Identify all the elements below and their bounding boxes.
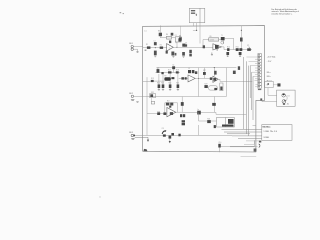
- ground stub mid: [211, 53, 213, 56]
- table row 2: [263, 137, 269, 139]
- arrow ground A: [147, 140, 149, 142]
- svg-text:R9: R9: [210, 36, 212, 38]
- wire right verticals: [218, 57, 252, 136]
- resistor R23: [177, 84, 180, 89]
- ground below C1: [154, 55, 156, 58]
- svg-text:einzelne Vorverstärker u.: einzelne Vorverstärker u.: [271, 12, 292, 15]
- wire relay to bus: [214, 112, 246, 114]
- svg-text:1,0: 1,0: [144, 30, 146, 32]
- resistor R26: [192, 70, 195, 73]
- junction node stage2 in: [202, 47, 203, 48]
- wires to meter: [262, 88, 277, 102]
- svg-text:NF b: NF b: [267, 76, 271, 78]
- meter terminal 2: [282, 100, 286, 105]
- transistor Q1: [221, 37, 234, 50]
- resistor R27: [203, 72, 206, 75]
- table header: [262, 126, 271, 129]
- speck below input: [145, 50, 147, 51]
- ground below C3: [182, 55, 184, 58]
- resistor R31: [212, 103, 216, 106]
- svg-text:LS: LS: [288, 96, 290, 98]
- wire strip stubs: [246, 57, 258, 120]
- measurement specks: [120, 12, 124, 14]
- capacitor C5: [188, 70, 191, 73]
- resistor R39 bus end: [238, 66, 240, 70]
- ground J2: [136, 101, 138, 104]
- svg-text:R11: R11: [236, 46, 239, 48]
- ground R23: [177, 88, 179, 91]
- input jack J2: [131, 95, 143, 100]
- svg-text:La: La: [197, 109, 199, 111]
- bus lines to terminal table: [222, 126, 262, 139]
- svg-text:C2: C2: [175, 35, 177, 37]
- resistor R2: [160, 47, 163, 49]
- ground corner: [143, 149, 147, 152]
- battery box: [189, 8, 205, 22]
- resistor R43: [214, 71, 216, 75]
- resistor R12: [239, 48, 242, 51]
- resistor R11: [236, 48, 239, 51]
- capacitor C15: [170, 103, 173, 106]
- capacitor C16: [169, 41, 171, 44]
- switch S1: [151, 101, 154, 104]
- input jack J3: [131, 134, 135, 139]
- wire J2 input: [143, 96, 182, 98]
- op-amp U4: [213, 76, 218, 82]
- svg-text:3 SW.: 3 SW.: [263, 137, 269, 139]
- svg-text:R33: R33: [157, 111, 160, 113]
- resistor R7 below U1: [166, 51, 168, 54]
- component labels sprinkle: [151, 35, 249, 144]
- svg-text:R23: R23: [176, 83, 179, 85]
- relay K2: [217, 118, 235, 128]
- resistor R29: [204, 85, 207, 88]
- ground J1: [136, 51, 138, 54]
- connector box LS: [265, 81, 273, 87]
- svg-text:R4: R4: [166, 34, 168, 36]
- svg-text:R27: R27: [203, 70, 206, 72]
- capacitor C2: [171, 33, 174, 36]
- table row 1: [263, 131, 277, 133]
- schematic frame border: [143, 26, 265, 152]
- svg-text:C5: C5: [188, 68, 190, 70]
- junction node stage1 out: [176, 47, 177, 48]
- svg-text:1: 1: [169, 48, 170, 50]
- resistor R19: [143, 80, 154, 82]
- resistor R16: [161, 72, 163, 74]
- component box right: [220, 83, 223, 91]
- resistor R33: [157, 112, 160, 115]
- resistor R35 chain: [182, 120, 185, 125]
- header connector X1 strip: [258, 54, 261, 89]
- potentiometer P2: [164, 77, 174, 81]
- wire right row: [222, 25, 253, 49]
- ground C9: [169, 141, 171, 143]
- meter box M1: [277, 90, 296, 106]
- svg-text:R18: R18: [176, 70, 179, 72]
- op-amp U2: [213, 44, 222, 51]
- pin labels X1: [267, 56, 276, 87]
- svg-text:R15: R15: [156, 67, 159, 69]
- wire stage2: [177, 40, 223, 48]
- speck: [99, 196, 100, 197]
- meter terminal 1: [282, 94, 287, 102]
- ground R14: [239, 55, 241, 58]
- ground R22: [169, 88, 171, 91]
- capacitor C3: [182, 44, 187, 55]
- resistor R18: [176, 71, 179, 73]
- svg-text:R8: R8: [179, 35, 181, 37]
- junction battery node: [196, 30, 197, 31]
- terminal blob border end: [254, 149, 257, 152]
- resistor R46 top: [240, 38, 243, 42]
- svg-text:BU3: BU3: [129, 132, 133, 134]
- resistor R4 feedback box: [166, 36, 176, 43]
- resistor R13: [226, 52, 229, 56]
- resistor R37: [178, 134, 180, 137]
- resistor R14: [239, 52, 242, 56]
- svg-text:R20: R20: [157, 83, 160, 85]
- resistor R32: [150, 94, 156, 102]
- potentiometer P3: [162, 130, 167, 136]
- resistor R8: [179, 26, 182, 41]
- capacitor C17 junction: [203, 45, 205, 48]
- bus mid horizontal: [154, 68, 237, 85]
- box feedback stage1: [175, 37, 181, 42]
- terminal table X2: [262, 125, 292, 141]
- wire shadow line: [241, 156, 257, 158]
- wire stage1 input: [143, 41, 177, 48]
- arrow below table: [230, 144, 260, 148]
- junction bus loop: [214, 67, 215, 68]
- capacitor C1: [154, 42, 157, 55]
- resistor R1: [147, 46, 151, 49]
- strip pin marks: [258, 54, 259, 87]
- svg-text:P3: P3: [162, 128, 164, 130]
- svg-text:C4: C4: [172, 65, 174, 67]
- resistor R17: [168, 71, 172, 73]
- op-amp U5: [167, 108, 176, 117]
- ground R21: [162, 88, 164, 91]
- capacitor C11: [273, 83, 280, 86]
- resistor R20: [158, 84, 161, 89]
- blob below table: [259, 141, 261, 143]
- capacitor C7: [180, 114, 182, 117]
- resistor R44: [195, 71, 197, 74]
- resistor R6: [182, 44, 185, 47]
- wire U3 out: [195, 68, 214, 79]
- svg-text:C3: C3: [185, 43, 187, 45]
- svg-text:NF a: NF a: [267, 72, 271, 74]
- potentiometer P1: [247, 47, 251, 51]
- resistor R28: [210, 77, 212, 80]
- resistor R10: [227, 48, 229, 51]
- svg-text:+15 V Stab.: +15 V Stab.: [267, 56, 276, 59]
- lamp La1: [197, 111, 201, 115]
- svg-text:R2: R2: [160, 45, 162, 47]
- diode D1: [214, 125, 216, 128]
- wire to blob: [246, 140, 259, 142]
- output network wires: [199, 112, 217, 135]
- capacitor C14: [166, 103, 170, 106]
- resistor R30: [181, 102, 184, 106]
- svg-text:R19: R19: [151, 78, 154, 80]
- svg-text:P1: P1: [247, 45, 249, 47]
- capacitor C12 below U1: [171, 52, 176, 58]
- svg-text:BU2: BU2: [129, 93, 133, 95]
- svg-text:C1: C1: [154, 40, 156, 42]
- capacitor C13 bus end: [233, 71, 236, 74]
- title text block top right: [271, 8, 299, 15]
- op-amp U1: [167, 44, 174, 51]
- resistor R38 below U2: [189, 50, 192, 57]
- svg-text:R10: R10: [227, 46, 230, 48]
- op-amp U3: [188, 75, 195, 82]
- resistor R3: [159, 25, 167, 37]
- capacitor C4: [172, 66, 175, 69]
- svg-text:R22: R22: [168, 83, 171, 85]
- junction top rail: [241, 30, 242, 31]
- junction U3 out: [198, 78, 199, 79]
- resistor R24: [181, 77, 184, 79]
- feedback loop U5: [165, 103, 178, 114]
- resistor R15: [157, 69, 160, 73]
- resistor R36: [207, 120, 211, 123]
- capacitor C9: [169, 136, 172, 141]
- svg-text:R1: R1: [146, 44, 148, 46]
- svg-text:R3: R3: [158, 31, 160, 33]
- svg-text:R21: R21: [161, 83, 164, 85]
- wire bottom run: [135, 135, 232, 139]
- capacitor C6 loop: [209, 86, 218, 90]
- svg-text:C10: C10: [218, 142, 221, 144]
- svg-text:R17: R17: [168, 70, 171, 72]
- resistor R42: [171, 133, 174, 136]
- battery B1: [191, 10, 195, 14]
- capacitor C10: [218, 140, 254, 152]
- svg-text:R36: R36: [207, 118, 210, 120]
- ground R20: [158, 88, 160, 91]
- svg-text:R32: R32: [151, 92, 154, 94]
- svg-text:R29: R29: [205, 83, 208, 85]
- resistor R40: [169, 106, 171, 108]
- svg-text:////////: ////////: [210, 40, 215, 42]
- battery wires: [193, 23, 200, 44]
- svg-text:BU1: BU1: [129, 43, 133, 45]
- capacitor C8: [183, 114, 185, 117]
- ground R13: [227, 55, 229, 58]
- resistor R9 feedback box: [209, 38, 219, 41]
- resistor R34: [163, 112, 166, 115]
- junction node stage1: [155, 47, 156, 48]
- svg-text:T1: T1: [221, 35, 223, 37]
- svg-text:P2: P2: [165, 75, 167, 77]
- wien bridge loop: [182, 68, 226, 113]
- arrow battery: [196, 14, 197, 16]
- resistor R41 inside: [170, 112, 173, 115]
- svg-text:Stk Bez.: Stk Bez.: [262, 126, 271, 129]
- input jack J1: [131, 45, 143, 51]
- svg-text:0: 0: [267, 85, 268, 87]
- blob jog corner: [260, 98, 262, 100]
- resistor R21: [162, 84, 165, 89]
- resistor R25: [185, 77, 187, 79]
- resistor R22: [169, 84, 172, 89]
- wire return: [244, 140, 254, 144]
- svg-text:1 SW. 73c 1.5: 1 SW. 73c 1.5: [263, 131, 277, 133]
- op-amp U5 stage: [147, 77, 182, 135]
- strip end cap: [258, 89, 261, 90]
